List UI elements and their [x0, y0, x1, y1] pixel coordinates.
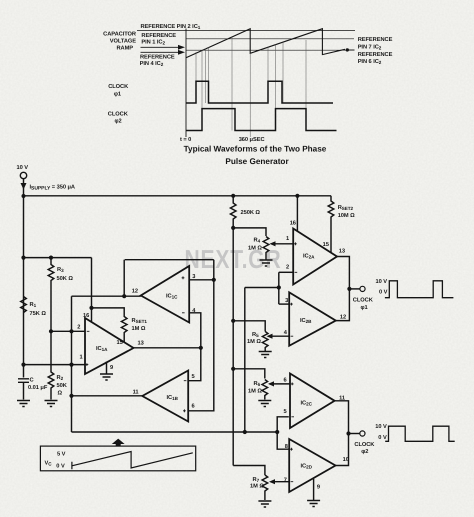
op-amp IC2C: [290, 374, 335, 429]
arrowhead PIN 1 IC2: [178, 45, 185, 50]
polarity marks IC1A: [86, 331, 90, 366]
svg-text:RSET2: RSET2: [338, 205, 354, 211]
node R5 branch: [231, 319, 235, 323]
svg-text:15: 15: [323, 242, 329, 248]
svg-text:5 V: 5 V: [57, 451, 66, 457]
svg-text:5: 5: [284, 409, 287, 415]
clock phase2 waveform: [186, 109, 337, 131]
svg-text:12: 12: [340, 315, 346, 321]
node pin11 x71.5: [69, 394, 73, 398]
wire vertical x278.8 pins 2-3: [278, 272, 280, 304]
svg-text:φ2: φ2: [361, 449, 368, 455]
wire top rail: [24, 195, 332, 197]
svg-text:15: 15: [117, 340, 123, 346]
wire vertical x213.8 pin3 to pin6: [188, 260, 214, 411]
svg-text:IC2B: IC2B: [300, 318, 312, 324]
polarity marks IC1B: [183, 381, 186, 412]
svg-text:CLOCK: CLOCK: [108, 84, 129, 90]
svg-text:CLOCK: CLOCK: [353, 298, 374, 304]
terminal clock phase2: [360, 431, 365, 436]
node rail x244.8: [243, 430, 247, 434]
node R3 rail junction: [21, 256, 25, 260]
svg-text:10 V: 10 V: [376, 279, 388, 285]
ground below R7: [258, 501, 271, 507]
svg-text:5: 5: [192, 374, 195, 380]
node R3 bottom pin2: [49, 329, 53, 333]
resistor RSET2: [328, 196, 334, 253]
resistor R6: [262, 380, 268, 400]
svg-text:IC1C: IC1C: [166, 294, 178, 300]
svg-text:CLOCK: CLOCK: [108, 111, 129, 117]
node arrow to VC box: [112, 439, 125, 447]
svg-text:10 V: 10 V: [375, 424, 387, 430]
polarity marks IC2C: [291, 383, 294, 417]
svg-text:1: 1: [80, 355, 83, 361]
terminal clock phase1: [360, 286, 365, 291]
node pin1 x71.5: [69, 363, 73, 367]
node VC rail junction: [21, 363, 25, 367]
svg-text:R7: R7: [253, 477, 260, 483]
wire to R5: [233, 321, 265, 332]
node pins2-3: [277, 285, 281, 289]
ground below C: [17, 401, 30, 407]
svg-text:φ1: φ1: [361, 305, 368, 311]
svg-text:R3: R3: [57, 267, 64, 273]
wire bottom rail: [72, 431, 278, 433]
svg-text:IC2C: IC2C: [301, 401, 313, 407]
ground pin 9 IC2D: [307, 479, 320, 507]
op-amp IC2A: [293, 229, 337, 285]
op-amp IC2B: [289, 292, 336, 346]
resistor R1: [21, 297, 27, 313]
svg-text:0.01 μF: 0.01 μF: [28, 385, 48, 391]
resistor R5: [262, 332, 268, 352]
svg-text:R6: R6: [254, 381, 261, 387]
svg-text:9: 9: [110, 365, 113, 371]
svg-text:0 V: 0 V: [56, 464, 65, 470]
svg-text:16: 16: [290, 221, 296, 227]
svg-text:R1: R1: [30, 302, 37, 308]
node label REFERENCE PIN 4 IC2 arrow line: [141, 51, 180, 53]
VC waveform box: [40, 446, 195, 471]
svg-text:REFERENCE: REFERENCE: [358, 52, 393, 58]
node clock1 out: [347, 287, 351, 291]
svg-text:VC: VC: [45, 460, 53, 466]
svg-text:1M Ω: 1M Ω: [248, 389, 262, 395]
arrowhead R5 wiper: [267, 334, 273, 339]
node pin3 junction: [212, 278, 216, 282]
svg-text:1: 1: [286, 236, 289, 242]
wire IC2A output pin 13: [337, 257, 349, 289]
polarity marks IC2B: [290, 303, 293, 337]
wire IC2D output pin 10: [336, 434, 349, 466]
svg-text:R5: R5: [252, 332, 259, 338]
svg-text:Ω: Ω: [58, 391, 63, 397]
svg-text:1M Ω: 1M Ω: [247, 339, 261, 345]
capacitor voltage ramp waveform: [186, 29, 345, 58]
svg-text:360 μSEC: 360 μSEC: [239, 137, 265, 143]
svg-text:REFERENCE: REFERENCE: [140, 55, 175, 61]
node pin16 RSET1 tee: [89, 306, 93, 310]
svg-text:IC2A: IC2A: [303, 254, 315, 260]
svg-text:9: 9: [317, 485, 320, 491]
svg-text:φ1: φ1: [114, 91, 121, 97]
node clock2 out: [346, 431, 350, 435]
node dot on PIN6 line: [346, 48, 349, 51]
resistor RSET1: [92, 308, 128, 343]
node pin3 net on IC1C out: [122, 294, 126, 298]
wire IC2B output pin 12: [336, 289, 350, 321]
node R3 top: [49, 256, 53, 260]
svg-text:IC2D: IC2D: [301, 464, 313, 470]
wire IC1C pin3 net down to pin12 wire: [123, 260, 125, 297]
svg-text:REFERENCE: REFERENCE: [141, 33, 176, 39]
wire R5 wiper to pin4 IC2B: [268, 335, 289, 337]
svg-text:PIN 7 IC2: PIN 7 IC2: [358, 44, 382, 50]
node rail x277.2: [275, 430, 279, 434]
wire to R7: [233, 466, 265, 476]
svg-text:2: 2: [77, 325, 80, 331]
wire IC2C output pin 11: [335, 401, 349, 434]
ground below R2: [45, 401, 58, 407]
svg-text:φ2: φ2: [115, 118, 122, 124]
node label REFERENCE PIN 1 IC2 arrow line: [141, 46, 180, 48]
wire pins 5-8 branch: [277, 417, 289, 449]
ground below R6: [258, 401, 271, 407]
svg-text:IC1A: IC1A: [96, 346, 108, 352]
polarity marks IC2D: [290, 448, 293, 482]
svg-text:PIN 4 IC2: PIN 4 IC2: [140, 61, 164, 67]
node supply junction: [22, 194, 26, 198]
arrowhead R7 wiper: [269, 479, 275, 484]
svg-text:1M Ω: 1M Ω: [132, 326, 146, 332]
svg-text:CAPACITOR: CAPACITOR: [103, 32, 136, 38]
time axis vertical t=0: [185, 29, 187, 138]
wire pin3 IC2B: [279, 303, 289, 305]
wire R7 wiper to pin7 IC2D: [271, 481, 290, 483]
wire vertical x233.2 down: [232, 228, 234, 466]
arrowhead R4 wiper: [270, 241, 276, 246]
wire IC1C pin 3: [189, 279, 214, 281]
svg-text:10: 10: [343, 457, 349, 463]
capacitor C: [18, 365, 29, 400]
svg-text:RSET1: RSET1: [132, 318, 148, 324]
svg-text:ISUPPLY = 350 μA: ISUPPLY = 350 μA: [30, 184, 75, 191]
svg-text:7: 7: [284, 478, 287, 484]
svg-text:VOLTAGE: VOLTAGE: [110, 39, 137, 45]
wire short PIN6 stub: [348, 49, 355, 51]
resistor 250K on vertical x233.2: [230, 196, 236, 228]
wire IC1C pin 4: [189, 313, 201, 348]
svg-text:8: 8: [285, 444, 288, 450]
wire IC1B output pin 11: [72, 395, 143, 397]
svg-text:250K Ω: 250K Ω: [241, 210, 261, 216]
arrowhead PIN 4 IC2: [178, 50, 185, 55]
wire vertical x244.8: [244, 288, 246, 433]
op-amp IC1C: [141, 266, 189, 323]
node label REFERENCE PIN 6 IC2 level line: [186, 49, 355, 51]
svg-text:13: 13: [138, 341, 144, 347]
grid vertical lines: [196, 37, 306, 137]
wire vertical x91.5 rail to pin16: [91, 258, 93, 323]
wire left rail: [23, 196, 25, 365]
wire horizontal y287.5: [245, 287, 279, 289]
resistor R4: [263, 237, 269, 260]
wire R6 wiper to pin6 IC2C: [270, 383, 291, 385]
op-amp IC1A: [85, 318, 134, 374]
polarity marks IC2A: [294, 242, 297, 272]
node R6 branch: [231, 367, 235, 371]
svg-text:R2: R2: [57, 375, 64, 381]
resistor R2: [48, 331, 54, 399]
wire R4 wiper to pin1 IC2A: [271, 243, 293, 245]
wire IC1B pin 5: [188, 348, 201, 381]
wire reference net y259.7: [125, 259, 214, 261]
svg-text:Pulse Generator: Pulse Generator: [225, 157, 289, 166]
arrowhead R6 wiper: [268, 381, 274, 386]
svg-text:11: 11: [339, 396, 345, 402]
clock2 output waveform: [385, 426, 455, 441]
op-amp IC2D: [289, 439, 335, 492]
node label REFERENCE PIN 7 IC2 level line: [186, 38, 354, 40]
wire VC node horizontal: [24, 364, 86, 366]
svg-text:C: C: [30, 378, 34, 384]
svg-text:REFERENCE: REFERENCE: [358, 37, 393, 43]
svg-text:2: 2: [286, 265, 289, 271]
resistor R7: [262, 475, 268, 500]
wire to clock2 terminal: [349, 433, 360, 435]
wire IC1A output pin 13: [134, 347, 201, 349]
svg-text:PIN 6 IC2: PIN 6 IC2: [358, 59, 382, 65]
svg-text:CLOCK: CLOCK: [354, 442, 375, 448]
svg-text:6: 6: [192, 404, 195, 410]
svg-text:12: 12: [132, 288, 138, 294]
wire vertical x71.5 feedback: [71, 296, 73, 432]
svg-text:75K Ω: 75K Ω: [30, 311, 47, 317]
scan noise: [0, 0, 1, 1]
power terminal 10V: [20, 172, 26, 178]
node label REFERENCE PIN 2 IC1 level line: [137, 30, 355, 32]
wire pin16 IC2A: [296, 196, 298, 231]
svg-text:0 V: 0 V: [379, 290, 388, 296]
node pin16 rail: [295, 194, 299, 198]
svg-text:RAMP: RAMP: [116, 46, 133, 52]
svg-text:10M Ω: 10M Ω: [338, 213, 355, 219]
svg-text:1M Ω: 1M Ω: [248, 246, 262, 252]
ground below R5: [259, 352, 272, 358]
op-amp IC1B: [142, 371, 188, 422]
svg-text:3: 3: [192, 274, 195, 280]
svg-text:6: 6: [284, 378, 287, 384]
wire pin2 net: [51, 330, 85, 332]
svg-text:IC1B: IC1B: [167, 395, 179, 401]
svg-text:3: 3: [285, 298, 288, 304]
wire IC1C output pin 12: [72, 295, 141, 297]
clock1 output waveform: [385, 281, 454, 298]
svg-text:t = 0: t = 0: [180, 137, 191, 143]
node R4 branch: [231, 226, 235, 230]
node 250K rail: [231, 194, 235, 198]
node pin13 junction: [199, 346, 203, 350]
node pin2 x71.5: [69, 329, 73, 333]
ground pin 9 of IC1A: [100, 362, 113, 381]
clock phase1 waveform: [186, 81, 333, 103]
svg-text:10 V: 10 V: [17, 165, 29, 171]
svg-text:13: 13: [339, 248, 345, 254]
svg-text:50K: 50K: [57, 383, 68, 389]
polarity marks IC1C: [182, 276, 185, 312]
svg-text:Typical Waveforms of the Two P: Typical Waveforms of the Two Phase: [184, 145, 327, 154]
svg-text:16: 16: [83, 313, 89, 319]
wire to R4: [233, 228, 266, 236]
VC sawtooth waveform: [72, 452, 193, 470]
svg-text:50K Ω: 50K Ω: [57, 276, 74, 282]
svg-text:R4: R4: [254, 238, 261, 244]
wire pin2 IC2A: [279, 271, 293, 273]
svg-text:PIN 1 IC2: PIN 1 IC2: [141, 40, 165, 46]
resistor R3: [48, 258, 54, 332]
svg-text:11: 11: [133, 390, 139, 396]
svg-text:1M Ω: 1M Ω: [250, 484, 264, 490]
svg-text:REFERENCE PIN 2 IC1: REFERENCE PIN 2 IC1: [141, 24, 201, 30]
svg-text:0 V: 0 V: [378, 435, 387, 441]
wire supply down: [23, 178, 25, 196]
ground below R4: [260, 260, 273, 266]
wire R3 branch horizontal: [24, 257, 92, 259]
wire to R6: [233, 369, 265, 379]
supply current arrow: [21, 183, 27, 190]
wire to clock1 terminal: [349, 288, 359, 290]
